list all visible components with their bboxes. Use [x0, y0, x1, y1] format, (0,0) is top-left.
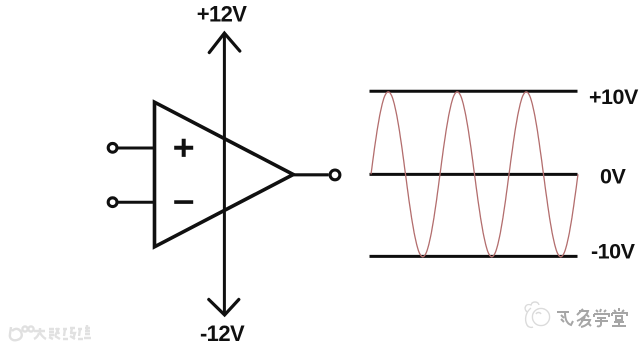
op-amp U1 — [155, 102, 294, 247]
line: -10V level — [370, 255, 578, 258]
svg-text:+12V: +12V — [197, 2, 248, 27]
line: 0V level — [370, 173, 578, 176]
watermark logo bottom-right — [525, 302, 549, 327]
watermark text bottom-right (CJK approximation) — [557, 308, 627, 327]
line: +10V level — [370, 90, 578, 93]
watermark text bottom-left (CJK approximation) — [34, 325, 91, 339]
wire: positive supply vertical line — [223, 34, 226, 315]
svg-text:-10V: -10V — [591, 240, 636, 264]
wire: non-inverting input — [117, 147, 156, 150]
terminal circle: non-inverting input — [108, 143, 117, 152]
svg-text:0V: 0V — [600, 164, 626, 188]
plus symbol (+ input) — [174, 139, 193, 157]
minus symbol (- input) — [174, 200, 193, 204]
wire: output — [293, 173, 329, 176]
svg-text:+10V: +10V — [589, 85, 639, 109]
watermark logo bottom-left — [10, 326, 34, 340]
arrowhead up (+12V supply) — [209, 33, 240, 52]
svg-text:-12V: -12V — [200, 321, 245, 346]
terminal circle: output — [330, 170, 340, 180]
terminal circle: inverting input — [108, 198, 117, 207]
arrowhead down (-12V supply) — [209, 300, 239, 315]
sine waveform (output signal) — [371, 92, 578, 257]
wire: inverting input — [117, 201, 156, 204]
